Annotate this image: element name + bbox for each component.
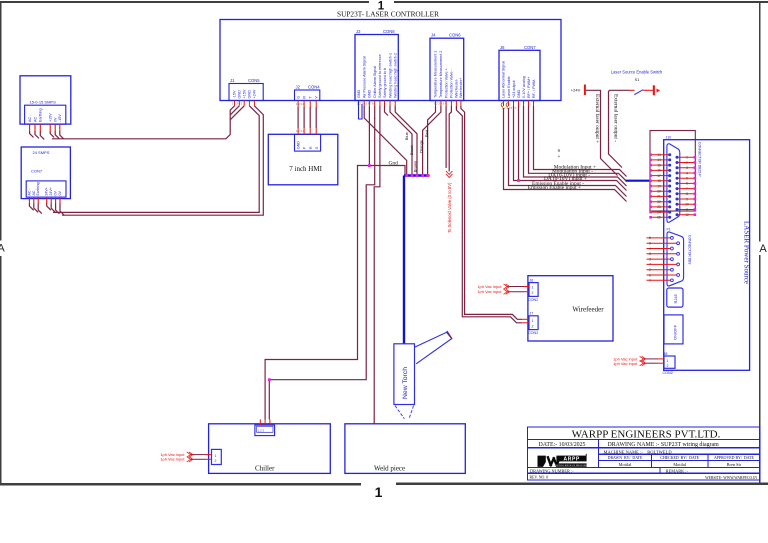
svg-text:Temperature Measurement 1: Temperature Measurement 1	[434, 51, 438, 98]
laser power source box	[664, 140, 750, 371]
svg-text:7: 7	[686, 187, 688, 191]
svg-text:AC -: AC -	[27, 188, 31, 196]
frame left border	[0, 1, 2, 241]
DB25 right pin stubs	[677, 157, 695, 214]
svg-text:APPROVED BY/ DATE: APPROVED BY/ DATE	[714, 456, 755, 460]
connector J10 outline box	[650, 131, 695, 212]
wire DA input -	[524, 106, 627, 186]
svg-text:DRAWING NUMBER :-: DRAWING NUMBER :-	[530, 468, 574, 473]
DB25 right pin numbers	[685, 156, 689, 217]
torch cable blue	[404, 176, 430, 344]
svg-text:Wirefeeder+: Wirefeeder+	[459, 78, 463, 98]
svg-text:14: 14	[657, 158, 661, 162]
chiller top connector	[255, 425, 275, 436]
svg-text:1 2 3 4 5 6 7: 1 2 3 4 5 6 7	[502, 106, 517, 110]
J6 pin2 orange curl	[506, 103, 508, 107]
chiller top connector stubs	[260, 419, 270, 425]
HMI box	[268, 134, 338, 185]
svg-text:SUP23T- LASER CONTROLLER: SUP23T- LASER CONTROLLER	[337, 10, 439, 19]
svg-text:1: 1	[532, 319, 534, 323]
svg-text:1: 1	[215, 454, 217, 458]
svg-text:2: 2	[532, 291, 534, 295]
wire emission enable input +	[504, 108, 627, 202]
svg-text:Motilal: Motilal	[619, 462, 632, 467]
svg-text:-15V: -15V	[58, 114, 62, 122]
svg-text:Safety ground to b: Safety ground to b	[383, 68, 387, 98]
svg-text:CON6: CON6	[449, 33, 461, 38]
connector J8 CON2	[663, 352, 676, 375]
svg-text:Red: Red	[424, 130, 429, 137]
wire emission enable input -	[509, 108, 627, 197]
frame right border	[759, 1, 761, 242]
svg-text:Safety ground to reference: Safety ground to reference	[378, 54, 382, 98]
svg-text:Laser Abnormal Signal: Laser Abnormal Signal	[502, 61, 506, 98]
svg-text:11: 11	[685, 208, 689, 212]
svg-text:RF- / PWM-: RF- / PWM-	[532, 78, 536, 98]
svg-text:16: 16	[657, 169, 661, 173]
svg-text:J8: J8	[664, 352, 668, 356]
svg-text:Temperature Measurement 2: Temperature Measurement 2	[439, 51, 443, 98]
DB9 pin circles	[671, 237, 680, 282]
svg-text:1ph Vac input: 1ph Vac input	[477, 289, 502, 294]
svg-text:+24 output: +24 output	[512, 80, 516, 98]
svg-text:3: 3	[649, 257, 651, 261]
wirefeeder supply chevrons	[504, 284, 510, 294]
ON-OFF box	[664, 315, 683, 344]
J2 pin stubs	[298, 101, 316, 108]
wirefeeder box	[528, 276, 613, 341]
power supply PS1 15-0-15 SMPS	[20, 76, 71, 124]
svg-text:0-10V analog: 0-10V analog	[522, 76, 526, 98]
svg-text:REV. NO. 0: REV. NO. 0	[530, 476, 549, 480]
J3 pin stubs	[364, 101, 395, 107]
wire J3 pin6 stub	[385, 106, 389, 116]
title block	[528, 427, 761, 480]
svg-text:+24V: +24V	[571, 88, 581, 93]
svg-text:S1: S1	[635, 78, 640, 82]
svg-text:1 2 3 4: 1 2 3 4	[296, 129, 304, 133]
svg-text:9: 9	[686, 197, 688, 201]
svg-text:15-0-15 SMPS: 15-0-15 SMPS	[30, 99, 57, 104]
J8 supply wires	[643, 359, 664, 363]
svg-text:1ph Vac input: 1ph Vac input	[613, 361, 638, 366]
svg-text:External laser output +: External laser output +	[594, 94, 600, 143]
wire external laser output +	[586, 90, 618, 175]
DB25 left junction dots	[649, 153, 652, 218]
svg-text:1: 1	[686, 156, 688, 160]
svg-text:MACHINE NAME :- ROLTWELD: MACHINE NAME :- ROLTWELD	[604, 449, 673, 454]
J1 pin stubs	[235, 101, 255, 106]
wire external laser output -	[609, 90, 630, 167]
wire J3 pin5 to weld piece	[374, 106, 380, 424]
PS2 pin stubs	[29, 197, 60, 203]
wires J2 to HMI	[298, 107, 316, 128]
svg-text:Laser Source Enable Switch: Laser Source Enable Switch	[611, 70, 663, 75]
svg-text:Weld piece: Weld piece	[374, 465, 405, 473]
svg-text:J4: J4	[431, 33, 436, 38]
wire modulation input +	[534, 106, 627, 177]
svg-text:5: 5	[686, 177, 688, 181]
wire J3 pin7 welding switch1	[390, 106, 412, 176]
wire J4 pin4 protection valve - to solenoid	[449, 106, 451, 172]
wire J3 pin2 air pressure to cable	[364, 106, 407, 176]
svg-text:CON2: CON2	[528, 298, 538, 302]
laser controller U1 box	[220, 20, 561, 101]
svg-text:Brown: Brown	[412, 161, 417, 172]
svg-text:R: R	[302, 96, 306, 99]
svg-text:RF+ / PWM+: RF+ / PWM+	[527, 77, 531, 98]
svg-text:New Torch: New Torch	[402, 367, 409, 399]
svg-text:J7: J7	[530, 312, 534, 316]
svg-text:P: P	[303, 146, 307, 149]
svg-text:J3: J3	[356, 29, 361, 34]
switch S1	[629, 85, 660, 95]
svg-text:WARPP ENGINEERS PVT.LTD.: WARPP ENGINEERS PVT.LTD.	[572, 429, 721, 441]
svg-text:+: +	[558, 154, 561, 159]
svg-text:J6: J6	[500, 45, 505, 50]
svg-text:G: G	[296, 96, 300, 99]
svg-text:T: T	[309, 96, 313, 99]
svg-text:Wirefeeder: Wirefeeder	[572, 305, 604, 313]
torch nozzle dashed	[395, 406, 404, 419]
DB9 pin stubs	[647, 238, 677, 280]
svg-text:21: 21	[657, 195, 661, 199]
wire J3 pin3 to gnd net	[368, 106, 370, 166]
svg-text:P1: P1	[667, 228, 671, 232]
wire bus PS2 to J1	[53, 106, 263, 215]
svg-text:2: 2	[686, 161, 688, 165]
DB25 left pin numbers	[657, 153, 661, 220]
svg-text:CON2: CON2	[663, 371, 673, 375]
svg-text:CON7: CON7	[31, 168, 43, 173]
J3 pin1 gnd stub blue	[359, 101, 363, 120]
svg-text:1: 1	[532, 286, 534, 290]
svg-text:1: 1	[667, 359, 669, 363]
svg-text:J6: J6	[530, 279, 534, 283]
frame bottom border	[0, 483, 361, 485]
svg-text:2: 2	[532, 324, 534, 328]
svg-text:19: 19	[657, 184, 661, 188]
svg-text:7: 7	[649, 263, 651, 267]
svg-text:AC -: AC -	[28, 114, 32, 122]
J4 pin stubs	[436, 101, 461, 107]
svg-text:GND: GND	[357, 89, 361, 98]
svg-text:+15V: +15V	[49, 113, 53, 122]
wire J4 pin6 wirefeeder+	[461, 106, 522, 319]
svg-text:J2: J2	[296, 85, 301, 90]
chiller box	[209, 424, 331, 474]
chiller supply chevrons	[187, 452, 193, 462]
svg-text:DATE:- 10/03/2025: DATE:- 10/03/2025	[539, 442, 586, 448]
junction dot chiller	[268, 378, 271, 381]
svg-text:CON5: CON5	[248, 78, 260, 83]
svg-text:6: 6	[686, 182, 688, 186]
wirefeeder connector J6 CON2	[528, 279, 538, 303]
svg-text:CON8: CON8	[383, 29, 395, 34]
DB9 pin numbers	[649, 236, 651, 282]
PS1 wires to bus	[30, 131, 64, 139]
svg-text:7 inch HMI: 7 inch HMI	[289, 165, 322, 173]
junction dots on torch cable	[405, 174, 429, 177]
PS1 pin stubs	[30, 124, 60, 131]
svg-text:18: 18	[657, 179, 661, 183]
svg-text:V: V	[315, 96, 319, 99]
svg-text:2: 2	[649, 268, 651, 272]
svg-text:Laser Enable: Laser Enable	[507, 76, 511, 98]
svg-text:Protection Valve -: Protection Valve -	[450, 68, 454, 98]
svg-text:GND: GND	[368, 89, 372, 98]
svg-text:Orange: Orange	[419, 139, 424, 153]
svg-text:23: 23	[657, 205, 661, 209]
svg-text:3: 3	[686, 166, 688, 170]
svg-text:S: S	[315, 146, 319, 149]
svg-text:13: 13	[657, 153, 661, 157]
svg-text:24: 24	[657, 210, 661, 214]
wire modulation input -	[529, 106, 627, 181]
svg-text:DRAWN BY/ DATE: DRAWN BY/ DATE	[608, 456, 643, 460]
svg-text:25: 25	[657, 216, 661, 220]
svg-text:0V: 0V	[54, 117, 58, 122]
svg-text:A: A	[0, 243, 5, 255]
connector J4 CON6	[430, 33, 464, 101]
DB25 right dots	[676, 156, 679, 216]
connector J3 CON8	[355, 29, 398, 101]
J6 pin1 orange curl	[501, 103, 503, 107]
svg-text:ARPP: ARPP	[564, 456, 580, 462]
wirefeeder connector J7 CON2	[528, 312, 538, 336]
svg-text:1 2 3: 1 2 3	[258, 429, 264, 433]
svg-text:AC: AC	[32, 190, 36, 195]
PS2 wires to bus	[29, 204, 64, 216]
J6 pin stubs	[504, 101, 534, 107]
chiller supply wires	[191, 455, 212, 460]
svg-text:CONNECTOR DB25-P: CONNECTOR DB25-P	[698, 142, 702, 177]
wire J4 pin1 temp1 to cable	[428, 106, 436, 176]
torch arm	[415, 332, 452, 364]
svg-text:Emission Enable input +: Emission Enable input +	[528, 185, 581, 191]
svg-text:12: 12	[685, 213, 689, 217]
svg-text:ON/OFF: ON/OFF	[673, 324, 678, 340]
svg-text:24 SMPS: 24 SMPS	[33, 150, 50, 155]
svg-text:Chiller: Chiller	[255, 464, 275, 472]
svg-text:4: 4	[649, 247, 651, 251]
solenoid chevron arrow	[446, 171, 452, 178]
svg-text:2: 2	[667, 364, 669, 368]
junction dot gnd	[368, 164, 371, 167]
wire DA input +	[514, 106, 627, 191]
svg-text:Black: Black	[409, 145, 414, 155]
svg-text:2: 2	[215, 459, 217, 463]
svg-text:AC: AC	[33, 117, 37, 122]
DB25 right junction dots	[694, 156, 697, 216]
wire bus PS1 to J1	[52, 106, 244, 139]
svg-text:External laser output -: External laser output -	[612, 94, 618, 142]
svg-text:20: 20	[657, 190, 661, 194]
svg-text:24V+: 24V+	[49, 187, 53, 195]
svg-text:CON4: CON4	[308, 85, 320, 90]
svg-text:1 2 3 4 5: 1 2 3 4 5	[232, 102, 243, 106]
wirefeeder J7 pin stubs	[522, 319, 529, 323]
DB9 D-shell outline	[667, 232, 684, 286]
svg-text:1 2 3 4 5 6: 1 2 3 4 5 6	[434, 102, 447, 106]
svg-text:DRAWING NAME :- SUP23T wiring: DRAWING NAME :- SUP23T wiring diagram	[608, 442, 720, 448]
svg-text:9: 9	[649, 242, 651, 246]
wire gnd net	[265, 166, 405, 420]
svg-text:Welding head high switch-1: Welding head high switch-1	[388, 53, 392, 98]
svg-text:GND: GND	[238, 90, 242, 99]
svg-text:22: 22	[657, 200, 661, 204]
svg-text:15: 15	[657, 163, 661, 167]
svg-text:J1: J1	[230, 78, 235, 83]
connector J6 CON7	[499, 45, 540, 101]
wire J4 pin2 temp2 to cable	[423, 106, 441, 176]
svg-text:1 2 3 4: 1 2 3 4	[296, 102, 304, 106]
wire J4 pin5 wirefeeder-	[456, 106, 522, 323]
svg-text:GND: GND	[297, 141, 301, 149]
svg-text:Motilal: Motilal	[673, 462, 686, 467]
svg-text:Welding head high switch-2: Welding head high switch-2	[394, 53, 398, 98]
wire J3 pin4 chiller alarm	[269, 106, 374, 420]
torch arm tip maroon	[447, 331, 452, 339]
svg-text:RJ45: RJ45	[673, 293, 678, 303]
svg-text:R: R	[558, 149, 561, 153]
svg-text:Blue: Blue	[404, 131, 409, 140]
svg-text:Air Pressure Alarm Signal: Air Pressure Alarm Signal	[363, 56, 367, 98]
svg-text:EXCELLENCE IN WELDING: EXCELLENCE IN WELDING	[556, 465, 588, 467]
frame top border	[0, 1, 369, 3]
chiller side connector	[212, 449, 222, 464]
svg-text:CON7: CON7	[524, 45, 536, 50]
J8 supply chevrons	[640, 356, 646, 366]
svg-text:8: 8	[686, 192, 688, 196]
svg-text:CON2: CON2	[528, 331, 538, 335]
HMI connector	[295, 134, 321, 151]
weld piece box	[345, 424, 465, 474]
svg-text:Wirefeeder-: Wirefeeder-	[455, 78, 459, 98]
svg-text:10: 10	[685, 203, 689, 207]
svg-text:24V+: 24V+	[45, 187, 49, 195]
DB25 D-shell outline	[667, 144, 680, 223]
svg-text:-15V: -15V	[233, 90, 237, 98]
svg-text:WEBSITE- WWW.WARPP.CO.IN: WEBSITE- WWW.WARPP.CO.IN	[705, 476, 757, 480]
svg-text:0V: 0V	[58, 191, 62, 196]
DB25 left dots	[668, 153, 671, 219]
svg-text:LASER Power Source: LASER Power Source	[743, 221, 751, 284]
svg-text:CONNECTOR DB9: CONNECTOR DB9	[688, 235, 692, 264]
svg-text:R: R	[309, 146, 313, 149]
svg-text:CHECKED BY/ DATE: CHECKED BY/ DATE	[660, 456, 699, 460]
svg-text:1: 1	[375, 484, 383, 500]
svg-text:REMARK :-: REMARK :-	[666, 468, 689, 473]
svg-text:Earthing: Earthing	[39, 108, 43, 122]
connector J1 CON5	[229, 78, 263, 101]
svg-text:6: 6	[649, 273, 651, 277]
svg-text:0V: 0V	[54, 191, 58, 196]
svg-text:GND: GND	[248, 90, 252, 99]
wire J3 pin8 welding switch2	[395, 106, 417, 176]
connector J2 CON4	[295, 85, 321, 101]
svg-text:GND: GND	[517, 89, 521, 98]
svg-text:Protection Valve +: Protection Valve +	[444, 68, 448, 98]
svg-text:Bren Sir: Bren Sir	[727, 462, 742, 467]
svg-text:4: 4	[686, 171, 688, 175]
+24V tap bar	[584, 85, 586, 96]
svg-text:To Solenoid Valve (0 to 8V): To Solenoid Valve (0 to 8V)	[447, 182, 452, 233]
wirefeeder supply wires	[507, 287, 529, 292]
wire GND pin4	[518, 106, 520, 181]
RJ45 box	[667, 288, 683, 307]
junction dot DA	[517, 179, 520, 182]
power supply PS2 24 SMPS	[21, 147, 70, 199]
svg-text:1: 1	[649, 279, 651, 283]
svg-text:A: A	[759, 243, 767, 255]
svg-text:17: 17	[657, 174, 661, 178]
svg-text:Chiller Alarm Signal: Chiller Alarm Signal	[373, 66, 377, 98]
svg-text:1 2 3 4 5 6 7 8: 1 2 3 4 5 6 7 8	[357, 102, 374, 106]
HMI connector pin stubs	[298, 128, 316, 134]
svg-text:Earthing: Earthing	[36, 182, 40, 195]
svg-text:8: 8	[649, 252, 651, 256]
WARPP logo	[538, 454, 588, 467]
wire J4 pin3 protection valve +	[445, 106, 447, 168]
DB25 left pin stubs	[651, 155, 670, 218]
svg-text:1ph Vac input: 1ph Vac input	[160, 457, 185, 462]
blue wire to DB25 pin18	[626, 180, 650, 182]
new torch body	[394, 344, 415, 419]
svg-text:+24V: +24V	[253, 89, 257, 98]
svg-text:+15V: +15V	[242, 89, 246, 98]
svg-text:5: 5	[649, 236, 651, 240]
